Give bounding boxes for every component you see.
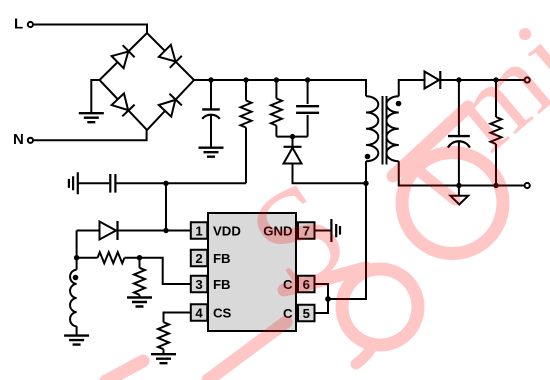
svg-text:CS: CS — [213, 305, 232, 320]
svg-text:N: N — [13, 131, 24, 148]
svg-text:L: L — [14, 15, 23, 32]
svg-text:2: 2 — [195, 251, 202, 266]
svg-text:3: 3 — [195, 277, 202, 292]
svg-text:FB: FB — [213, 277, 231, 292]
svg-text:1: 1 — [195, 223, 202, 238]
svg-text:FB: FB — [213, 251, 231, 266]
svg-text:4: 4 — [195, 305, 203, 320]
svg-text:VDD: VDD — [213, 223, 241, 238]
